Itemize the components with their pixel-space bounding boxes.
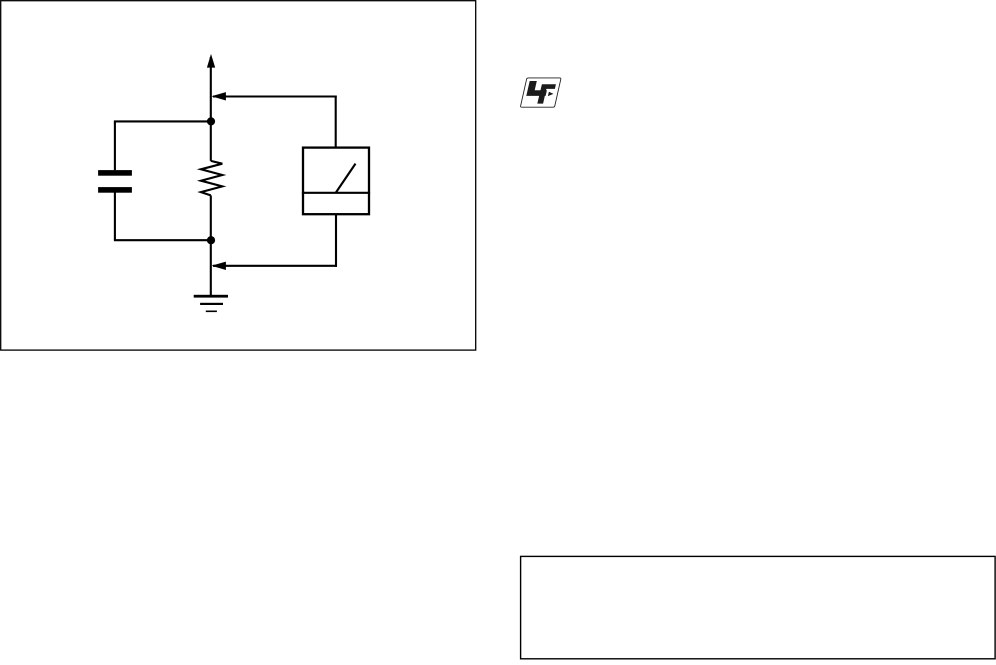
wire: top horizontal of capacitor branch: [114, 120, 211, 122]
wire: upper horizontal from main net to right branch: [213, 95, 337, 97]
capacitor C1 top plate: [98, 170, 132, 176]
wire: main vertical net (segment below resistor down to ground): [210, 195, 212, 295]
wire: bottom horizontal of capacitor branch: [114, 239, 211, 241]
wire: right branch vertical down to meter box top: [335, 96, 337, 148]
resistor R1 (zigzag): [201, 161, 222, 196]
node B (bottom junction dot): [207, 236, 215, 244]
capacitor C1 bottom plate: [98, 187, 132, 193]
meter box U1 needle diagonal: [336, 164, 356, 193]
schematic frame: [1, 1, 476, 350]
logo glyph "4" part: [526, 81, 547, 96]
logo glyph "F" stem and arm: [537, 84, 556, 103]
arrowhead left on upper right-branch wire: [211, 92, 226, 100]
logo outline (parallelogram): [521, 78, 561, 107]
arrowhead up at top of main vertical wire: [207, 54, 215, 68]
arrowhead left on lower right-branch wire: [211, 262, 226, 270]
note box (empty outlined rectangle, bottom right): [521, 556, 996, 658]
wire: main vertical net (top segment above resistor): [210, 57, 212, 161]
node A (top junction dot): [207, 117, 215, 125]
wire: right branch vertical from meter box bottom: [335, 215, 337, 267]
logo glyph arrow triangle: [548, 92, 554, 96]
wire: lower horizontal from right branch to main net: [213, 265, 337, 267]
wire: capacitor branch vertical upper lead: [114, 121, 116, 170]
ground: [194, 295, 228, 312]
meter box U1: [303, 148, 369, 215]
wire: capacitor branch vertical lower lead: [114, 193, 116, 241]
meter box U1 divider line: [302, 192, 370, 194]
